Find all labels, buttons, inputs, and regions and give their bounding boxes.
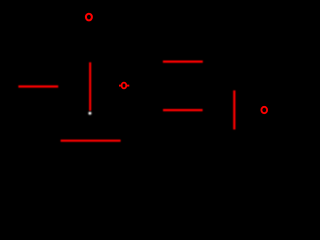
node: white atom dot below vertical bond <box>88 112 91 115</box>
atom O3 (right oxygen label) <box>261 107 267 113</box>
wire: left horizontal bond <box>18 85 58 87</box>
wire: vertical bond below O1 <box>89 62 91 110</box>
wire: right vertical bond <box>233 90 235 129</box>
atom O1 (top oxygen label) <box>86 14 92 21</box>
wire: lower right horizontal bond <box>163 109 203 111</box>
wire: bottom horizontal bond <box>61 140 121 142</box>
wire: O2 left bond stub <box>119 85 121 87</box>
atom O2 (middle ether oxygen label) <box>122 83 127 89</box>
wire: upper right horizontal bond <box>163 60 203 62</box>
wire: O2 right bond stub <box>127 85 129 87</box>
